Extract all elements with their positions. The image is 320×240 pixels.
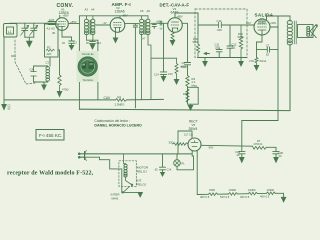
potentiometer R8A (196, 13, 199, 58)
speaker cone arrow (310, 24, 316, 37)
svg-text:60mA: 60mA (260, 59, 267, 63)
svg-text:A1·A2: A1·A2 (47, 27, 56, 31)
capacitor C10 series (219, 22, 222, 27)
svg-text:A6: A6 (147, 9, 151, 13)
wire V3 plate top (175, 13, 198, 34)
wire V4 cathode (257, 35, 263, 58)
svg-text:C12: C12 (96, 42, 101, 45)
capacitor C1A (tuning) (22, 23, 28, 37)
svg-text:5000: 5000 (181, 65, 187, 69)
resistor chain 3 (248, 192, 257, 195)
svg-text:117 CA: 117 CA (184, 133, 193, 137)
svg-text:2.2MEG: 2.2MEG (115, 103, 125, 107)
wire plate junction down to B- (78, 24, 80, 110)
resistor R9 (186, 76, 189, 87)
svg-text:C8: C8 (182, 61, 186, 65)
transformer core (294, 21, 296, 44)
svg-text:6AT6: 6AT6 (171, 11, 179, 15)
svg-text:2700 Ω: 2700 Ω (254, 142, 263, 146)
wire V4 plate to transformer (267, 16, 291, 21)
capacitor C13B (273, 152, 279, 156)
svg-text:A3: A3 (85, 8, 89, 12)
svg-text:250: 250 (215, 46, 220, 50)
svg-text:22K: 22K (47, 52, 52, 56)
svg-text:R4: R4 (118, 95, 122, 99)
stamp watermark (77, 51, 99, 82)
oscillator coil box A1-A2 (45, 24, 59, 57)
svg-text:A4: A4 (91, 8, 95, 12)
resistor R4 (116, 99, 127, 102)
wire V1 plate to IFT1 (68, 16, 86, 24)
oscillator lower loop (49, 57, 51, 66)
wire V5 cathode / filter line (201, 144, 253, 147)
svg-text:RELOJ: RELOJ (137, 182, 147, 186)
svg-text:13300: 13300 (267, 188, 275, 192)
tube V3 DET-CAV-AF (168, 18, 183, 33)
svg-text:-1V: -1V (103, 21, 107, 25)
svg-text:+85V: +85V (177, 14, 183, 18)
svg-text:AMP. F-I: AMP. F-I (112, 2, 131, 7)
svg-text:+85V: +85V (70, 20, 77, 24)
resistor 470ohm (58, 50, 60, 75)
motor reloj coil (124, 154, 126, 179)
voice coil (307, 27, 310, 30)
ground below box left (204, 58, 206, 62)
svg-text:25V 0.5: 25V 0.5 (240, 195, 250, 199)
bottom wire in box (198, 57, 247, 59)
wire V3 out right (182, 23, 187, 62)
wire tuning common (25, 37, 34, 41)
svg-text:A7: A7 (142, 37, 146, 41)
resistor R5 V3 cathode (171, 32, 174, 41)
wire antenna top (10, 22, 56, 24)
chain end ground (275, 193, 283, 197)
capacitor C13A (239, 152, 245, 156)
ground below box right (240, 58, 242, 62)
wire L1 left down to CAV bus (3, 37, 5, 100)
dashed box volume control (195, 9, 247, 58)
svg-text:C3: C3 (46, 61, 50, 65)
wire drop to C12 (229, 25, 231, 46)
svg-text:13300: 13300 (248, 188, 256, 192)
svg-text:+85V: +85V (122, 14, 128, 18)
svg-text:A5: A5 (140, 9, 144, 13)
svg-text:receptor de Wald modelo F-522,: receptor de Wald modelo F-522, (7, 170, 94, 176)
capacitor C8 (185, 63, 191, 76)
svg-text:C14: C14 (167, 168, 172, 172)
svg-text:12BA6: 12BA6 (115, 10, 125, 14)
svg-text:50B5: 50B5 (258, 21, 266, 25)
resistor R8B loop (188, 86, 199, 104)
wire to V4 grid (247, 24, 254, 26)
wiper arrow (205, 53, 210, 55)
resistor chain 4 (266, 192, 275, 195)
svg-text:F-I 455 KC.: F-I 455 KC. (39, 133, 63, 138)
tube V1 CONV (56, 18, 69, 31)
IF transformer T1 winding A3 (85, 16, 87, 40)
svg-text:CAV: CAV (104, 96, 111, 100)
svg-text:C14: C14 (154, 72, 159, 76)
B+ bus top (86, 15, 148, 17)
ground left end (2, 100, 6, 110)
svg-text:ANT: ANT (49, 18, 55, 22)
output transformer primary (289, 20, 291, 111)
capacitor C1B (tuning) (31, 23, 37, 37)
capacitor C4 (31, 72, 37, 77)
oscillator coil A2 (47, 66, 49, 82)
pilot lamp (174, 160, 181, 167)
svg-text:R2: R2 (47, 46, 51, 50)
AC line bottom to motor (86, 157, 141, 192)
wire AVC vertical (163, 23, 165, 72)
svg-text:PL: PL (182, 162, 186, 166)
svg-text:33Ω: 33Ω (169, 141, 174, 145)
B+ rail vertical (242, 16, 278, 152)
svg-text:+90V: +90V (270, 21, 276, 25)
resistor R10 (239, 25, 242, 58)
svg-text:L1: L1 (8, 30, 12, 34)
svg-text:C2: C2 (74, 41, 78, 45)
IF transformer T2 winding A6 (148, 16, 151, 100)
svg-text:3300: 3300 (209, 188, 215, 192)
wire V2 plate (125, 23, 139, 25)
capacitor C2 (62, 30, 72, 41)
capacitor bypass (160, 72, 166, 77)
antenna coil L1 (4, 24, 18, 38)
svg-text:.05: .05 (154, 168, 158, 172)
svg-text:54V 0.5: 54V 0.5 (220, 195, 230, 199)
tube V5 RECT (188, 138, 201, 151)
resistor R2 22K inside box (46, 49, 54, 51)
inter man switch (123, 187, 130, 193)
F-I 455 KC box (36, 130, 64, 141)
svg-text:RELOJ: RELOJ (137, 169, 147, 173)
svg-text:R1b: R1b (11, 54, 16, 58)
gang dashed link (15, 40, 35, 84)
speaker box (298, 25, 314, 38)
svg-text:90V: 90V (209, 146, 214, 150)
svg-text:500K: 500K (193, 40, 199, 44)
wire T2 secondary to V3 grid (151, 22, 168, 24)
capacitor C12 (227, 46, 233, 58)
resistor R6 (173, 143, 188, 145)
svg-text:49V 0.5: 49V 0.5 (260, 195, 270, 199)
svg-text:+85V: +85V (63, 14, 69, 18)
svg-text:SALIDA: SALIDA (255, 13, 274, 18)
tube V2 AMP F-I (110, 18, 125, 33)
svg-text:DANIEL HORACIO LUCERO: DANIEL HORACIO LUCERO (94, 123, 142, 127)
dashed box clock (119, 161, 136, 187)
svg-text:CONV.: CONV. (57, 3, 74, 9)
AC line top (86, 153, 193, 155)
svg-text:R8B: R8B (183, 92, 188, 96)
capacitor C7 series (257, 47, 279, 52)
capacitor C11 (216, 48, 222, 58)
tube V4 SALIDA (254, 19, 270, 35)
svg-text:C20: C20 (168, 72, 173, 76)
svg-text:C4: C4 (30, 68, 34, 72)
grid cap C7 det (160, 21, 162, 25)
ground tuning (27, 41, 32, 46)
wire screen to B+ rail (270, 26, 278, 28)
svg-text:Círculo de: Círculo de (82, 52, 94, 56)
svg-text:35W4: 35W4 (189, 127, 198, 131)
ground V2 cathode (115, 32, 117, 38)
svg-text:47Ω: 47Ω (249, 59, 254, 63)
svg-text:-1V: -1V (159, 27, 163, 31)
svg-text:48V 0.5: 48V 0.5 (200, 195, 210, 199)
svg-text:C7: C7 (266, 44, 270, 48)
T2 core (144, 20, 145, 35)
wire V1 grid left (48, 21, 56, 23)
ground osc (43, 82, 45, 85)
power plug (84, 152, 86, 160)
svg-text:C10: C10 (217, 19, 222, 23)
capacitor C5 to B- (133, 24, 137, 108)
resistor R11 47ohm (255, 58, 258, 66)
ground R8B (190, 104, 192, 105)
IF transformer T1 winding A4 (92, 16, 94, 40)
heater string chain (197, 193, 208, 195)
capacitor C14 (160, 154, 166, 173)
svg-text:.005: .005 (217, 28, 223, 32)
wire T1 secondary to V2 grid (96, 24, 111, 26)
svg-text:MAN.: MAN. (112, 196, 120, 200)
resistor hanger (175, 58, 178, 79)
int reloj switch (126, 179, 132, 187)
resistor chain 2 (229, 193, 238, 196)
resistor chain 1 (209, 193, 218, 196)
svg-text:+85V: +85V (156, 20, 162, 24)
svg-text:.02: .02 (232, 46, 236, 50)
wire T1 bottom to CAV (86, 40, 98, 100)
B- bus (79, 109, 290, 110)
capacitor T1 bypass (90, 40, 96, 44)
collaboration text (94, 119, 142, 127)
T1 core (89, 20, 90, 35)
wire V5 plate loop (178, 131, 192, 154)
svg-text:Meg: Meg (192, 83, 198, 87)
svg-text:12V: 12V (246, 21, 251, 25)
resistor R7 2700 (253, 146, 267, 149)
svg-text:Técnicos: Técnicos (83, 78, 94, 82)
svg-text:13300: 13300 (229, 188, 237, 192)
CAV bus (4, 98, 164, 101)
svg-text:500K: 500K (238, 35, 244, 39)
IF transformer T2 winding A5 (141, 16, 143, 100)
capacitor C6 (152, 23, 156, 28)
wire C10 line (198, 24, 247, 26)
svg-text:470Ω: 470Ω (62, 88, 69, 92)
wire cathode network horizontal (151, 57, 177, 59)
